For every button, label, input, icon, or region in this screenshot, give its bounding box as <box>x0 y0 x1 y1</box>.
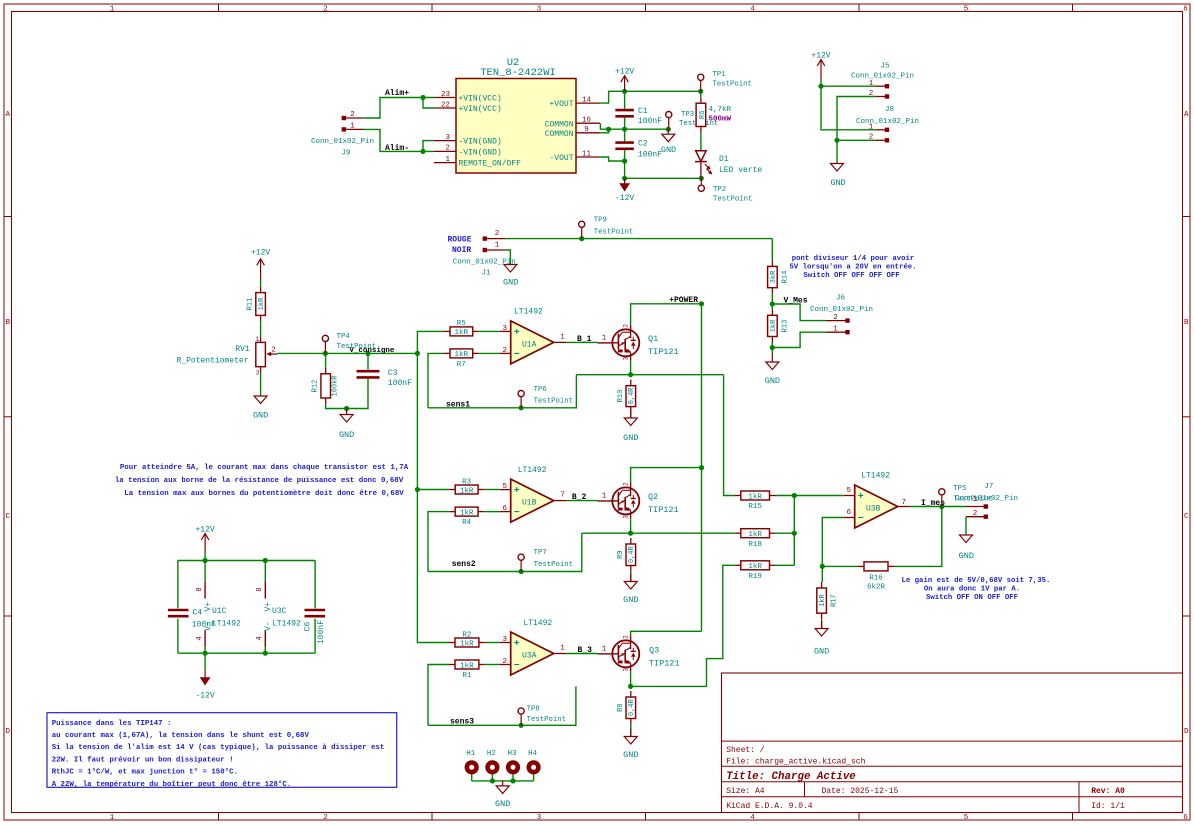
label Alim- <box>385 144 409 153</box>
wire Q3 collector <box>631 631 702 636</box>
svg-text:9: 9 <box>584 126 589 134</box>
junction -12V at D1 <box>699 176 704 181</box>
transistor Q1 <box>598 324 679 361</box>
svg-text:H4: H4 <box>528 750 538 758</box>
wire R17 gnd <box>821 619 823 628</box>
svg-text:TIP121: TIP121 <box>648 347 679 357</box>
svg-text:-VIN(GND): -VIN(GND) <box>459 138 502 147</box>
svg-text:3kR: 3kR <box>770 270 778 283</box>
resistor R4 <box>449 507 484 527</box>
svg-text:1: 1 <box>602 645 607 653</box>
svg-text:R3: R3 <box>462 478 472 486</box>
wire U3B out <box>911 506 966 508</box>
svg-text:TestPoint: TestPoint <box>594 228 633 236</box>
connector J9 <box>311 111 374 157</box>
power -12V (U2) <box>615 178 634 203</box>
junction V_consigne main <box>415 351 420 356</box>
svg-text:C3: C3 <box>388 369 398 378</box>
svg-text:4: 4 <box>750 814 755 822</box>
svg-text:Switch OFF ON OFF OFF: Switch OFF ON OFF OFF <box>926 594 1018 602</box>
svg-text:LT1492: LT1492 <box>518 466 547 475</box>
svg-text:R_Potentiometer: R_Potentiometer <box>176 356 248 365</box>
resistor R17 <box>817 582 839 619</box>
IC U2 TEN_8-2422WI <box>434 57 600 173</box>
wire sens3 to R1 <box>428 665 449 726</box>
note transistor courant <box>115 464 409 498</box>
svg-text:1kR: 1kR <box>748 531 762 539</box>
svg-text:TP2: TP2 <box>713 186 726 194</box>
junction Q3 emitter <box>628 684 633 689</box>
svg-text:C4: C4 <box>193 608 203 617</box>
svg-text:6: 6 <box>1183 6 1188 14</box>
svg-text:2: 2 <box>622 482 629 486</box>
svg-text:4: 4 <box>750 6 755 14</box>
svg-text:8: 8 <box>256 587 264 591</box>
svg-text:Switch OFF OFF OFF OFF: Switch OFF OFF OFF OFF <box>803 272 899 280</box>
svg-text:1: 1 <box>495 241 500 249</box>
svg-text:1kR: 1kR <box>258 297 266 310</box>
svg-text:+12V: +12V <box>251 249 270 258</box>
svg-text:-12V: -12V <box>615 194 634 203</box>
svg-text:3: 3 <box>445 134 450 142</box>
junction TP9 <box>579 236 584 241</box>
svg-text:1kR: 1kR <box>460 662 474 670</box>
connector J6 <box>810 294 873 334</box>
svg-text:D: D <box>1184 728 1189 736</box>
svg-text:8: 8 <box>196 587 204 591</box>
resistor R8 <box>617 691 636 725</box>
svg-text:TP8: TP8 <box>527 706 540 714</box>
junction +VOUT at TP1 <box>698 89 703 94</box>
resistor R11 <box>247 287 267 322</box>
wire C6 branch <box>314 561 316 654</box>
connector J7 <box>955 483 1018 519</box>
label I_mes <box>921 499 945 508</box>
svg-text:1kR: 1kR <box>819 594 827 607</box>
svg-text:TP9: TP9 <box>594 217 607 225</box>
label B_2 <box>572 493 587 502</box>
svg-text:0,4R: 0,4R <box>628 387 636 405</box>
svg-text:Pour atteindre 5A, le courant: Pour atteindre 5A, le courant max dans c… <box>120 464 409 472</box>
wire power block top <box>178 560 315 562</box>
svg-text:-VOUT: -VOUT <box>549 154 573 163</box>
svg-text:5: 5 <box>964 814 969 822</box>
svg-text:RthJC = 1°C/W, et max junction: RthJC = 1°C/W, et max junction t° = 150°… <box>52 768 238 777</box>
power +12V (J5) <box>811 52 830 87</box>
svg-text:LT1492: LT1492 <box>861 472 890 481</box>
svg-text:3: 3 <box>502 636 507 644</box>
transistor Q2 <box>598 482 679 519</box>
wire R11-RV1 <box>260 321 262 336</box>
capacitor C1 <box>615 91 662 129</box>
svg-text:GND: GND <box>253 411 268 421</box>
svg-text:Sheet: /: Sheet: / <box>726 746 765 755</box>
testpoint TP8 <box>518 706 566 726</box>
junction Alim+ <box>420 95 425 100</box>
svg-text:1kR: 1kR <box>460 640 474 648</box>
svg-text:J8: J8 <box>885 106 894 114</box>
svg-text:2: 2 <box>869 134 874 142</box>
svg-text:1: 1 <box>256 336 260 343</box>
ground (R10) <box>623 410 638 443</box>
svg-text:RV1: RV1 <box>235 345 250 354</box>
svg-text:C2: C2 <box>638 140 648 149</box>
wire R10 gnd <box>630 413 632 418</box>
svg-text:+12V: +12V <box>195 526 214 535</box>
svg-text:A: A <box>1184 111 1189 119</box>
svg-text:2: 2 <box>502 658 507 666</box>
svg-text:A 22W, la température du boîti: A 22W, la température du boîtier peut do… <box>52 780 292 789</box>
svg-text:R5: R5 <box>457 320 467 328</box>
svg-text:1: 1 <box>602 493 607 501</box>
svg-text:3: 3 <box>537 814 542 822</box>
svg-text:14: 14 <box>582 96 592 104</box>
ground (TP3) <box>661 129 676 155</box>
junction Q1 emitter <box>628 372 633 377</box>
junction U3B- R16 <box>820 564 825 569</box>
svg-text:Date: 2025-12-15: Date: 2025-12-15 <box>822 787 899 796</box>
svg-text:GND: GND <box>623 595 638 605</box>
svg-text:11: 11 <box>582 150 592 158</box>
wire Alim- branch <box>423 141 434 152</box>
resistor R5 <box>444 320 479 337</box>
svg-text:Size: A4: Size: A4 <box>726 787 765 796</box>
svg-text:sens2: sens2 <box>452 560 476 569</box>
svg-text:6k2R: 6k2R <box>867 584 886 592</box>
wire RV1-gnd <box>260 373 262 396</box>
svg-text:GND: GND <box>814 647 829 657</box>
mounting hole H1 <box>466 750 476 781</box>
junction +POWER <box>699 301 704 306</box>
wire TP1-R6 <box>700 91 702 97</box>
resistor R2 <box>449 631 485 648</box>
capacitor C3 <box>357 369 413 388</box>
svg-text:TIP121: TIP121 <box>648 505 679 515</box>
note puissance TIP147 <box>47 713 397 789</box>
svg-text:R6: R6 <box>699 111 707 119</box>
svg-text:Alim+: Alim+ <box>385 89 409 98</box>
resistor R12 <box>311 368 339 404</box>
resistor R7 <box>444 349 479 369</box>
wire Q1 collector <box>631 304 702 325</box>
svg-text:Q2: Q2 <box>648 492 658 502</box>
svg-text:LT1492: LT1492 <box>212 619 241 628</box>
svg-text:2: 2 <box>622 324 629 328</box>
svg-text:GND: GND <box>959 551 974 561</box>
wire R2 out <box>485 642 500 644</box>
svg-text:GND: GND <box>339 430 354 440</box>
svg-text:3: 3 <box>622 356 629 360</box>
svg-text:+VIN(VCC): +VIN(VCC) <box>459 105 502 114</box>
svg-text:COMMON: COMMON <box>545 120 574 129</box>
wire R9 gnd <box>630 572 632 582</box>
note gain <box>902 577 1051 602</box>
svg-text:LED verte: LED verte <box>719 166 762 175</box>
svg-text:500mW: 500mW <box>709 116 732 124</box>
svg-text:+POWER: +POWER <box>669 296 698 305</box>
junction Q2 collector <box>699 465 704 470</box>
label Alim+ <box>385 89 409 98</box>
svg-text:R11: R11 <box>247 298 255 311</box>
svg-text:GND: GND <box>661 145 676 155</box>
svg-text:R1: R1 <box>462 672 472 680</box>
svg-text:TestPoint: TestPoint <box>713 80 752 88</box>
svg-text:1kR: 1kR <box>748 493 762 501</box>
svg-text:1: 1 <box>869 80 874 88</box>
wire COMMON pin9 <box>600 129 609 133</box>
svg-text:B: B <box>1184 319 1189 327</box>
svg-text:J6: J6 <box>836 294 846 302</box>
svg-text:Conn_01x02_Pin: Conn_01x02_Pin <box>311 138 374 146</box>
wire V_consigne to R3 <box>417 489 449 491</box>
svg-text:C: C <box>1184 513 1189 521</box>
svg-text:R13: R13 <box>782 320 790 333</box>
wire R6-D1 <box>700 133 702 151</box>
junction H2 <box>490 778 495 783</box>
svg-text:COMMON: COMMON <box>545 130 574 139</box>
svg-text:2: 2 <box>973 510 978 518</box>
svg-text:2: 2 <box>323 814 328 822</box>
svg-text:TestPoint: TestPoint <box>534 561 573 569</box>
capacitor C4 <box>168 608 216 629</box>
junction bottom U3C <box>263 651 268 656</box>
wire Q2 emitter <box>630 519 632 533</box>
svg-text:GND: GND <box>830 178 845 188</box>
junction COMMON c <box>666 127 671 132</box>
resistor R13 <box>768 309 790 342</box>
svg-text:TP4: TP4 <box>337 333 351 341</box>
svg-text:100kR: 100kR <box>332 375 340 397</box>
svg-text:2: 2 <box>833 314 838 322</box>
svg-text:J9: J9 <box>341 150 350 158</box>
svg-text:TP1: TP1 <box>713 71 727 79</box>
svg-text:Conn_01x02_Pin: Conn_01x02_Pin <box>856 118 919 126</box>
junction Alim- <box>420 149 425 154</box>
svg-text:+12V: +12V <box>811 52 830 61</box>
svg-text:TP6: TP6 <box>534 386 547 394</box>
connector J8 <box>856 106 919 143</box>
svg-text:U3B: U3B <box>866 504 881 513</box>
svg-text:KiCad E.D.A. 9.0.4: KiCad E.D.A. 9.0.4 <box>726 802 813 811</box>
svg-text:22: 22 <box>441 101 450 109</box>
wire R12/C3 gnd <box>326 379 368 409</box>
svg-text:D1: D1 <box>719 155 729 164</box>
svg-text:1kR: 1kR <box>748 563 762 571</box>
svg-text:LT1492: LT1492 <box>523 619 552 628</box>
svg-text:Si la tension de l'alim est 14: Si la tension de l'alim est 14 V (cas ty… <box>52 744 385 752</box>
svg-text:5: 5 <box>964 6 969 14</box>
wire J1 pin1 gnd <box>506 250 511 265</box>
wire V_consigne <box>278 352 418 354</box>
svg-text:C6: C6 <box>304 622 313 632</box>
op-amp U1A <box>500 307 567 364</box>
title block <box>722 673 1183 813</box>
svg-text:TP5: TP5 <box>953 485 966 493</box>
wire R8 gnd <box>630 725 632 737</box>
svg-text:LT1492: LT1492 <box>272 619 301 628</box>
wire sens2 <box>428 533 582 571</box>
svg-text:100nF: 100nF <box>638 117 662 126</box>
svg-text:Q1: Q1 <box>648 334 658 344</box>
svg-text:-VIN(GND): -VIN(GND) <box>459 149 502 158</box>
wire to U3B+ <box>794 495 843 497</box>
junction -12V <box>622 176 627 181</box>
power -12V (U1C) <box>195 653 214 700</box>
svg-text:1: 1 <box>833 326 838 334</box>
svg-text:U1B: U1B <box>522 498 537 507</box>
svg-text:1: 1 <box>110 6 115 14</box>
svg-text:R15: R15 <box>748 503 762 511</box>
op-amp power U1C <box>196 561 241 654</box>
junction -VOUT <box>622 158 627 163</box>
wire summing node <box>793 496 795 566</box>
wire sens1 to R7 <box>428 353 444 407</box>
svg-text:Alim-: Alim- <box>385 144 409 153</box>
svg-text:R8: R8 <box>617 703 625 711</box>
power +12V (U2) <box>615 68 634 92</box>
ground (R13) <box>765 354 780 386</box>
junction +12V J5 <box>818 84 823 89</box>
ground (R9) <box>623 574 638 606</box>
wire power block bottom <box>178 652 315 654</box>
svg-text:16: 16 <box>582 117 592 125</box>
wire R15 out <box>776 495 795 497</box>
testpoint TP3 <box>666 111 719 129</box>
svg-text:Puissance dans les TIP147 :: Puissance dans les TIP147 : <box>52 720 172 728</box>
svg-text:sens1: sens1 <box>446 401 470 410</box>
junction sens2 TP7 <box>519 569 524 574</box>
svg-text:R16: R16 <box>869 575 883 583</box>
svg-text:0,4R: 0,4R <box>628 546 636 564</box>
svg-text:REMOTE_ON/OFF: REMOTE_ON/OFF <box>459 160 522 169</box>
svg-text:TP3: TP3 <box>681 111 694 119</box>
svg-text:H3: H3 <box>507 750 517 758</box>
wire V_consigne down <box>417 353 449 642</box>
junction V_consigne TP4 <box>323 351 328 356</box>
svg-text:6: 6 <box>1183 814 1188 822</box>
svg-text:100nF: 100nF <box>317 620 326 644</box>
resistor R19 <box>735 561 776 581</box>
svg-text:Title: Charge Active: Title: Charge Active <box>726 771 856 783</box>
svg-text:TEN_8-2422WI: TEN_8-2422WI <box>480 67 556 79</box>
label ROUGE <box>448 236 472 245</box>
wire Q1 emitter <box>630 361 632 375</box>
wire Alim- <box>364 129 434 151</box>
mounting hole H2 <box>487 750 497 781</box>
svg-text:D: D <box>5 728 10 736</box>
wire Q3 to R19 <box>631 565 735 686</box>
svg-text:TIP121: TIP121 <box>649 659 680 669</box>
wire Alim+ <box>364 98 434 119</box>
wire R16 left <box>822 565 858 567</box>
svg-text:3: 3 <box>502 325 507 333</box>
svg-text:1kR: 1kR <box>460 509 474 517</box>
power +12V (U1C) <box>195 526 214 561</box>
wire U1B-Q2 <box>567 500 598 502</box>
wire Q2 collector <box>631 468 702 484</box>
junction sens3 TP8 <box>519 723 524 728</box>
resistor R6 <box>696 97 731 132</box>
svg-text:1kR: 1kR <box>770 319 778 332</box>
wire U1A-Q1 <box>567 341 598 343</box>
junction J8 pin2 <box>834 138 839 143</box>
wire -12V rail <box>624 161 626 178</box>
junction R13 gnd <box>770 345 775 350</box>
wire R14-R13 <box>771 294 773 310</box>
wire sens1 row <box>576 374 723 376</box>
wire gnd to J6 pin1 <box>772 332 826 347</box>
junction summing a <box>792 493 797 498</box>
svg-text:Conn_01x02_Pin: Conn_01x02_Pin <box>851 73 914 81</box>
wire V_Mes to J6 pin2 <box>772 304 826 321</box>
svg-text:R18: R18 <box>748 541 762 549</box>
svg-text:4: 4 <box>196 636 204 640</box>
svg-text:5: 5 <box>502 483 507 491</box>
ground (R8) <box>623 729 638 761</box>
wire R16 right <box>894 507 942 567</box>
wire U3A-Q3 <box>567 653 598 655</box>
svg-text:2: 2 <box>445 145 450 153</box>
svg-text:Le gain est de 5V/0,68V soit 7: Le gain est de 5V/0,68V soit 7,35. <box>902 577 1051 585</box>
testpoint TP1 <box>698 71 752 91</box>
svg-text:100nF: 100nF <box>388 379 412 388</box>
svg-text:B: B <box>5 319 10 327</box>
svg-text:2: 2 <box>272 346 276 354</box>
resistor R15 <box>735 491 776 511</box>
junction V_Mes <box>770 301 775 306</box>
wire R13-gnd <box>771 343 773 355</box>
wire C3 top <box>367 353 369 369</box>
svg-text:2: 2 <box>502 347 507 355</box>
LED D1 <box>695 151 762 179</box>
wire -VOUT <box>600 157 625 161</box>
svg-text:au courant max (1,67A), la ten: au courant max (1,67A), la tension dans … <box>52 732 310 740</box>
resistor R16 <box>858 562 894 592</box>
label NOIR <box>452 246 471 255</box>
wire J8 to gnd <box>836 140 838 163</box>
label V_Mes <box>784 296 808 305</box>
svg-text:3: 3 <box>256 370 260 377</box>
wire Alim+ branch <box>423 98 434 109</box>
note pont diviseur <box>790 255 917 280</box>
svg-text:J5: J5 <box>880 63 890 71</box>
wire Q1 to R15 <box>724 375 735 496</box>
op-amp U3A <box>500 619 567 675</box>
svg-text:On aura donc 1V par A.: On aura donc 1V par A. <box>924 586 1020 594</box>
svg-text:LT1492: LT1492 <box>514 307 543 316</box>
ground (R12) <box>339 409 354 441</box>
svg-text:pont diviseur 1/4 pour avoir: pont diviseur 1/4 pour avoir <box>792 255 915 263</box>
svg-text:la tension aux borne de la rés: la tension aux borne de la résistance de… <box>115 477 404 485</box>
svg-text:2: 2 <box>622 635 629 639</box>
wire R3 out <box>484 489 500 491</box>
svg-text:TP7: TP7 <box>534 549 547 557</box>
op-amp power U3C <box>256 561 301 654</box>
label sens1 <box>446 401 470 410</box>
ground (J7) <box>959 535 974 561</box>
wire C4 branch <box>177 561 179 654</box>
svg-text:La tension max aux bornes du p: La tension max aux bornes du potentiomèt… <box>124 490 404 498</box>
wire +POWER rail <box>701 304 703 632</box>
resistor R1 <box>449 660 485 680</box>
svg-text:R4: R4 <box>462 519 472 527</box>
label sens2 <box>452 560 476 569</box>
op-amp U3B <box>844 472 911 528</box>
svg-text:H1: H1 <box>466 750 476 758</box>
svg-text:3: 3 <box>622 668 629 672</box>
svg-text:GND: GND <box>623 433 638 443</box>
svg-text:GND: GND <box>503 278 518 288</box>
